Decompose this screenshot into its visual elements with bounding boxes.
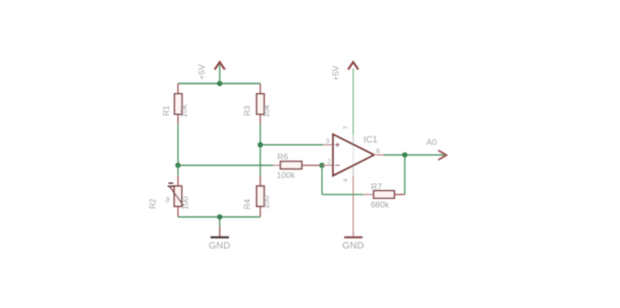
wire +5V stem (bridge) bbox=[219, 63, 221, 84]
svg-text:10k: 10k bbox=[180, 104, 189, 118]
svg-text:GND: GND bbox=[209, 240, 231, 251]
thermistor arrow R2 bbox=[170, 186, 184, 205]
svg-text:100k: 100k bbox=[277, 170, 296, 180]
svg-text:R2: R2 bbox=[149, 198, 158, 209]
wire V- to ground bbox=[352, 196, 354, 237]
op-amp minus sign bbox=[335, 164, 339, 166]
wire left bridge lower bbox=[177, 165, 179, 176]
wire R6 to node bbox=[302, 164, 322, 166]
ground (op-amp) bbox=[344, 236, 362, 238]
node inverting junction bbox=[319, 163, 324, 168]
wire feedback up to output node bbox=[404, 155, 406, 195]
wire feedback to R7 bbox=[322, 194, 363, 196]
op-amp plus sign bbox=[335, 143, 339, 147]
wire bottom rail bbox=[178, 216, 260, 218]
ground (bridge) bbox=[211, 236, 230, 238]
wire +5V stem (op-amp) bbox=[352, 69, 354, 135]
wire non-inverting input run bbox=[260, 144, 323, 146]
svg-text:7: 7 bbox=[343, 126, 350, 130]
svg-text:3: 3 bbox=[326, 138, 330, 145]
node output junction bbox=[402, 152, 407, 157]
wire op-amp output bbox=[374, 154, 385, 156]
wire right bridge upper bbox=[259, 84, 261, 95]
svg-text:+5V: +5V bbox=[330, 65, 340, 81]
wire left bridge upper bbox=[177, 84, 179, 95]
node top rail junction bbox=[217, 81, 222, 86]
svg-text:R7: R7 bbox=[371, 181, 382, 191]
supply +5V symbol (bridge) bbox=[215, 62, 225, 70]
svg-text:A0: A0 bbox=[426, 137, 437, 147]
pinhead arrow A0 bbox=[438, 150, 446, 160]
svg-text:R4: R4 bbox=[243, 199, 252, 210]
resistor R2 (thermistor) bbox=[174, 186, 182, 206]
supply +5V symbol (op-amp) bbox=[348, 62, 358, 70]
svg-text:+5V: +5V bbox=[197, 64, 207, 80]
op-amp IC1 bbox=[333, 134, 374, 175]
wire to op-amp inverting pin bbox=[322, 164, 333, 166]
node left mid junction bbox=[175, 163, 180, 168]
wire R7 to output bbox=[394, 194, 404, 196]
svg-text:IC1: IC1 bbox=[364, 135, 378, 145]
wire op-amp +in pin stub bbox=[323, 144, 333, 146]
node right mid junction bbox=[258, 142, 263, 147]
wire output run bbox=[384, 154, 445, 156]
resistor R3 bbox=[257, 94, 265, 114]
svg-text:2: 2 bbox=[327, 159, 331, 166]
thermistor arrow bars R2 bbox=[168, 182, 173, 184]
svg-text:4: 4 bbox=[343, 178, 350, 182]
resistor R4 bbox=[257, 186, 265, 206]
svg-text:ϑ: ϑ bbox=[166, 196, 171, 205]
wire left bridge bottom bbox=[177, 206, 179, 217]
resistor R6 bbox=[280, 161, 301, 169]
node bottom junction bbox=[217, 214, 222, 219]
wire op-amp power through bbox=[352, 135, 354, 176]
wire top rail bbox=[178, 83, 260, 85]
svg-text:680k: 680k bbox=[371, 200, 390, 210]
wire GND stem (bridge) bbox=[219, 217, 221, 227]
wire right bridge bottom bbox=[259, 206, 261, 217]
wire feedback down from inverting node bbox=[321, 165, 323, 194]
wire inverting input run bbox=[178, 164, 273, 166]
svg-text:R3: R3 bbox=[243, 105, 252, 116]
svg-text:100: 100 bbox=[181, 196, 190, 210]
wire R6 left pin bbox=[273, 164, 280, 166]
svg-text:10k: 10k bbox=[262, 104, 271, 118]
svg-text:R1: R1 bbox=[162, 105, 171, 116]
wire right bridge middle bbox=[259, 114, 261, 124]
resistor R1 bbox=[175, 94, 183, 114]
resistor R7 bbox=[374, 191, 395, 199]
svg-text:R6: R6 bbox=[277, 151, 288, 161]
svg-text:100: 100 bbox=[262, 195, 271, 209]
svg-text:6: 6 bbox=[376, 148, 380, 155]
wire left bridge middle bbox=[177, 114, 179, 124]
wire op-amp V- pin bbox=[352, 176, 354, 196]
wire R7 left pin bbox=[363, 194, 373, 196]
svg-text:GND: GND bbox=[342, 240, 364, 251]
